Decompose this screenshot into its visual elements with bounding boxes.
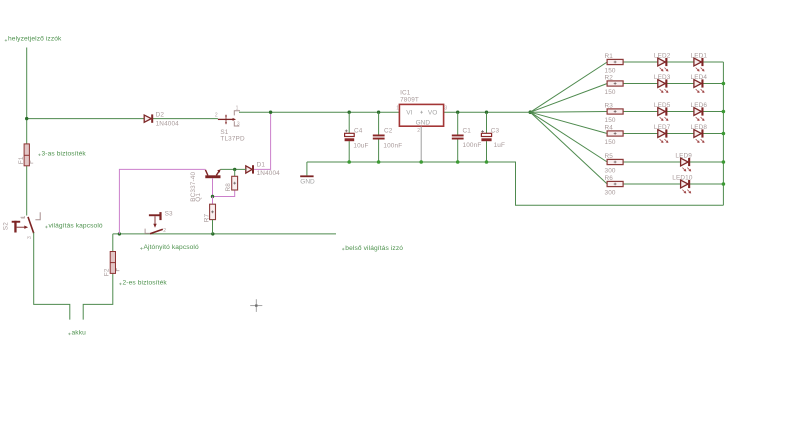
svg-text:1N4004: 1N4004: [257, 170, 281, 177]
junction rail row y83: [722, 82, 726, 86]
svg-text:1: 1: [396, 106, 399, 112]
fuse F2: [104, 252, 120, 277]
wire main rail IC1 to fan node: [444, 111, 531, 113]
wire row R2 to rail: [623, 83, 723, 85]
LED LED10: [672, 175, 693, 194]
svg-text:Ajtónyitó kapcsoló: Ajtónyitó kapcsoló: [144, 244, 200, 251]
wire fan diagonal to R3: [530, 111, 607, 114]
resistor R6 300: [605, 175, 624, 197]
junction IC1 gnd: [419, 160, 423, 164]
svg-text:100nF: 100nF: [463, 142, 482, 149]
svg-text:R3: R3: [605, 103, 614, 110]
svg-text:F1: F1: [18, 156, 25, 164]
LED LED7: [654, 124, 671, 143]
svg-text:10uF: 10uF: [353, 143, 368, 150]
svg-text:2-es biztosíték: 2-es biztosíték: [123, 280, 168, 287]
svg-text:LED5: LED5: [654, 102, 671, 109]
LED LED1: [691, 53, 708, 72]
svg-text:150: 150: [605, 89, 616, 96]
svg-text:C2: C2: [384, 127, 393, 134]
junction rail row y133: [722, 132, 726, 136]
wire LED cathode rail right: [722, 62, 724, 205]
svg-text:belső világítás izzó: belső világítás izzó: [345, 245, 403, 252]
svg-text:R2: R2: [605, 75, 614, 82]
LED LED6: [691, 102, 708, 121]
junction R8 top node: [233, 168, 236, 171]
wire net violet from main rail down to D1: [254, 112, 271, 169]
resistor R5 300: [605, 153, 624, 175]
LED LED9: [675, 153, 692, 172]
svg-text:C3: C3: [491, 127, 500, 134]
junction bottom R7 tap: [211, 232, 214, 235]
svg-text:100nF: 100nF: [383, 143, 402, 150]
svg-text:1: 1: [20, 216, 26, 219]
svg-text:R6: R6: [605, 175, 614, 182]
label belso vilagitas izzo: [342, 245, 403, 252]
svg-text:GND: GND: [300, 179, 315, 186]
wire fan diagonal to R5: [530, 112, 607, 162]
switch S1 TL37PD: [215, 106, 245, 143]
svg-text:LED6: LED6: [691, 102, 708, 109]
svg-text:1uF: 1uF: [494, 142, 505, 149]
svg-text:D1: D1: [257, 161, 266, 168]
wire from S2 down to battery: [34, 233, 70, 320]
junction C3 tap: [485, 111, 488, 114]
wire row R1 to rail: [623, 61, 723, 63]
wire fan diagonal to R2: [530, 84, 607, 113]
junction C4 gnd: [347, 160, 351, 164]
svg-text:LED4: LED4: [691, 74, 708, 81]
label vilagitas kapcsolo: [45, 223, 103, 230]
junction rail row y162: [722, 160, 726, 164]
junction rail row y184: [722, 182, 726, 186]
svg-text:C1: C1: [463, 127, 472, 134]
svg-text:helyzetjelző izzók: helyzetjelző izzók: [8, 36, 62, 43]
svg-text:LED9: LED9: [675, 153, 692, 160]
junction C2 tap: [377, 111, 380, 114]
svg-text:akku: akku: [72, 330, 87, 337]
svg-text:LED1: LED1: [691, 53, 708, 60]
svg-text:GND: GND: [416, 119, 431, 126]
junction C3 gnd: [485, 160, 489, 164]
svg-text:R5: R5: [605, 153, 614, 160]
svg-text:S2: S2: [2, 222, 9, 230]
label Ajtonyito kapcsolo: [140, 244, 199, 251]
svg-text:LED10: LED10: [672, 175, 693, 182]
LED LED4: [691, 74, 708, 93]
svg-text:3: 3: [27, 236, 33, 239]
wire row R6 to rail: [623, 183, 723, 185]
battery akku terminals: [5, 330, 86, 337]
resistor R2 150: [605, 75, 624, 97]
capacitor C1 100nF: [452, 112, 482, 162]
svg-text:világítás kapcsoló: világítás kapcsoló: [49, 223, 103, 230]
svg-text:300: 300: [605, 168, 616, 175]
svg-text:D2: D2: [156, 112, 165, 119]
junction C2 gnd: [377, 160, 381, 164]
svg-text:S3: S3: [165, 211, 173, 218]
svg-text:7809T: 7809T: [400, 97, 419, 104]
svg-text:C4: C4: [354, 127, 363, 134]
wire violet base to R7: [212, 197, 214, 205]
svg-text:2: 2: [417, 128, 420, 134]
wire IC1 gnd pin: [420, 126, 422, 162]
label 3-as biztositek: [38, 150, 86, 157]
svg-text:BC337-40: BC337-40: [190, 172, 197, 202]
LED LED5: [654, 102, 671, 121]
fan node junction: [529, 110, 533, 114]
wire fan diagonal to R4: [530, 112, 607, 133]
svg-text:2: 2: [215, 113, 218, 119]
junction C1 gnd: [456, 160, 460, 164]
svg-text:LED2: LED2: [654, 53, 671, 60]
wire violet collector net to bottom junction: [119, 169, 205, 234]
svg-text:R8: R8: [225, 183, 232, 192]
diode D2 1N4004: [144, 112, 179, 128]
junction violet tap: [269, 111, 272, 114]
svg-text:VI: VI: [406, 109, 412, 116]
wire left vertical from lamp node to S2: [26, 48, 28, 216]
label 2-es biztositek: [119, 280, 167, 287]
svg-text:LED8: LED8: [691, 124, 708, 131]
svg-text:R4: R4: [605, 125, 614, 132]
wire from battery right terminal up to F2: [83, 234, 113, 320]
resistor R8: [225, 169, 237, 191]
resistor R7: [203, 204, 215, 234]
node helyzetjelzo izzok label: [5, 36, 62, 43]
wire row R5 to rail: [623, 161, 723, 163]
svg-text:150: 150: [605, 117, 616, 124]
LED LED2: [654, 53, 671, 72]
wire fan diagonal to R1: [530, 62, 607, 112]
svg-text:3: 3: [444, 106, 447, 112]
ground symbol GND: [300, 162, 315, 186]
svg-text:150: 150: [605, 139, 616, 146]
svg-text:3: 3: [237, 121, 240, 127]
LED LED8: [691, 124, 708, 143]
resistor R3 150: [605, 103, 624, 125]
junction base node: [211, 195, 214, 198]
capacitor C2 100nF: [373, 112, 402, 162]
svg-text:R7: R7: [203, 214, 210, 223]
diode D1 1N4004: [246, 161, 280, 177]
svg-text:LED3: LED3: [654, 74, 671, 81]
svg-text:300: 300: [605, 190, 616, 197]
svg-text:1N4004: 1N4004: [156, 121, 180, 128]
fuse F1: [18, 144, 33, 166]
svg-text:LED7: LED7: [654, 124, 671, 131]
junction C4 tap: [348, 111, 351, 114]
capacitor C4 10uF: [345, 112, 369, 162]
wire main rail S1 to IC1: [239, 111, 399, 113]
wire row R4 to rail: [623, 133, 723, 135]
switch S2 vilagitas kapcsolo: [2, 212, 40, 239]
IC1 7809T regulator: [396, 89, 447, 134]
LED LED3: [654, 74, 671, 93]
svg-text:R1: R1: [605, 53, 614, 60]
wire emitter node to D1 anode: [220, 168, 246, 170]
svg-text:1: 1: [236, 106, 239, 112]
junction left top: [25, 117, 28, 120]
svg-text:3-as biztosíték: 3-as biztosíték: [42, 150, 87, 157]
wire violet base net: [213, 178, 235, 196]
svg-text:150: 150: [605, 68, 616, 75]
svg-text:VO: VO: [428, 109, 437, 116]
wire row R3 to rail: [623, 111, 723, 113]
junction C1 tap: [456, 111, 459, 114]
svg-text:2: 2: [163, 228, 166, 234]
switch S3 ajtonyito kapcsolo: [145, 211, 173, 234]
capacitor C3 1uF: [481, 112, 505, 162]
resistor R1 150: [605, 53, 624, 75]
svg-text:IC1: IC1: [400, 89, 411, 96]
junction rail row y111: [722, 110, 726, 114]
svg-text:F2: F2: [104, 268, 111, 276]
wire fan diagonal to R6: [530, 112, 607, 184]
origin cross: [250, 299, 262, 312]
junction bottom magenta tap: [118, 232, 121, 235]
wire main horizontal to D2/S1: [27, 118, 218, 120]
resistor R4 150: [605, 125, 624, 147]
transistor Q1 BC337-40: [190, 169, 221, 202]
svg-text:TL37PD: TL37PD: [220, 135, 245, 142]
ground rail: [307, 162, 724, 205]
wire bottom horizontal belso vilagitas: [113, 233, 336, 235]
